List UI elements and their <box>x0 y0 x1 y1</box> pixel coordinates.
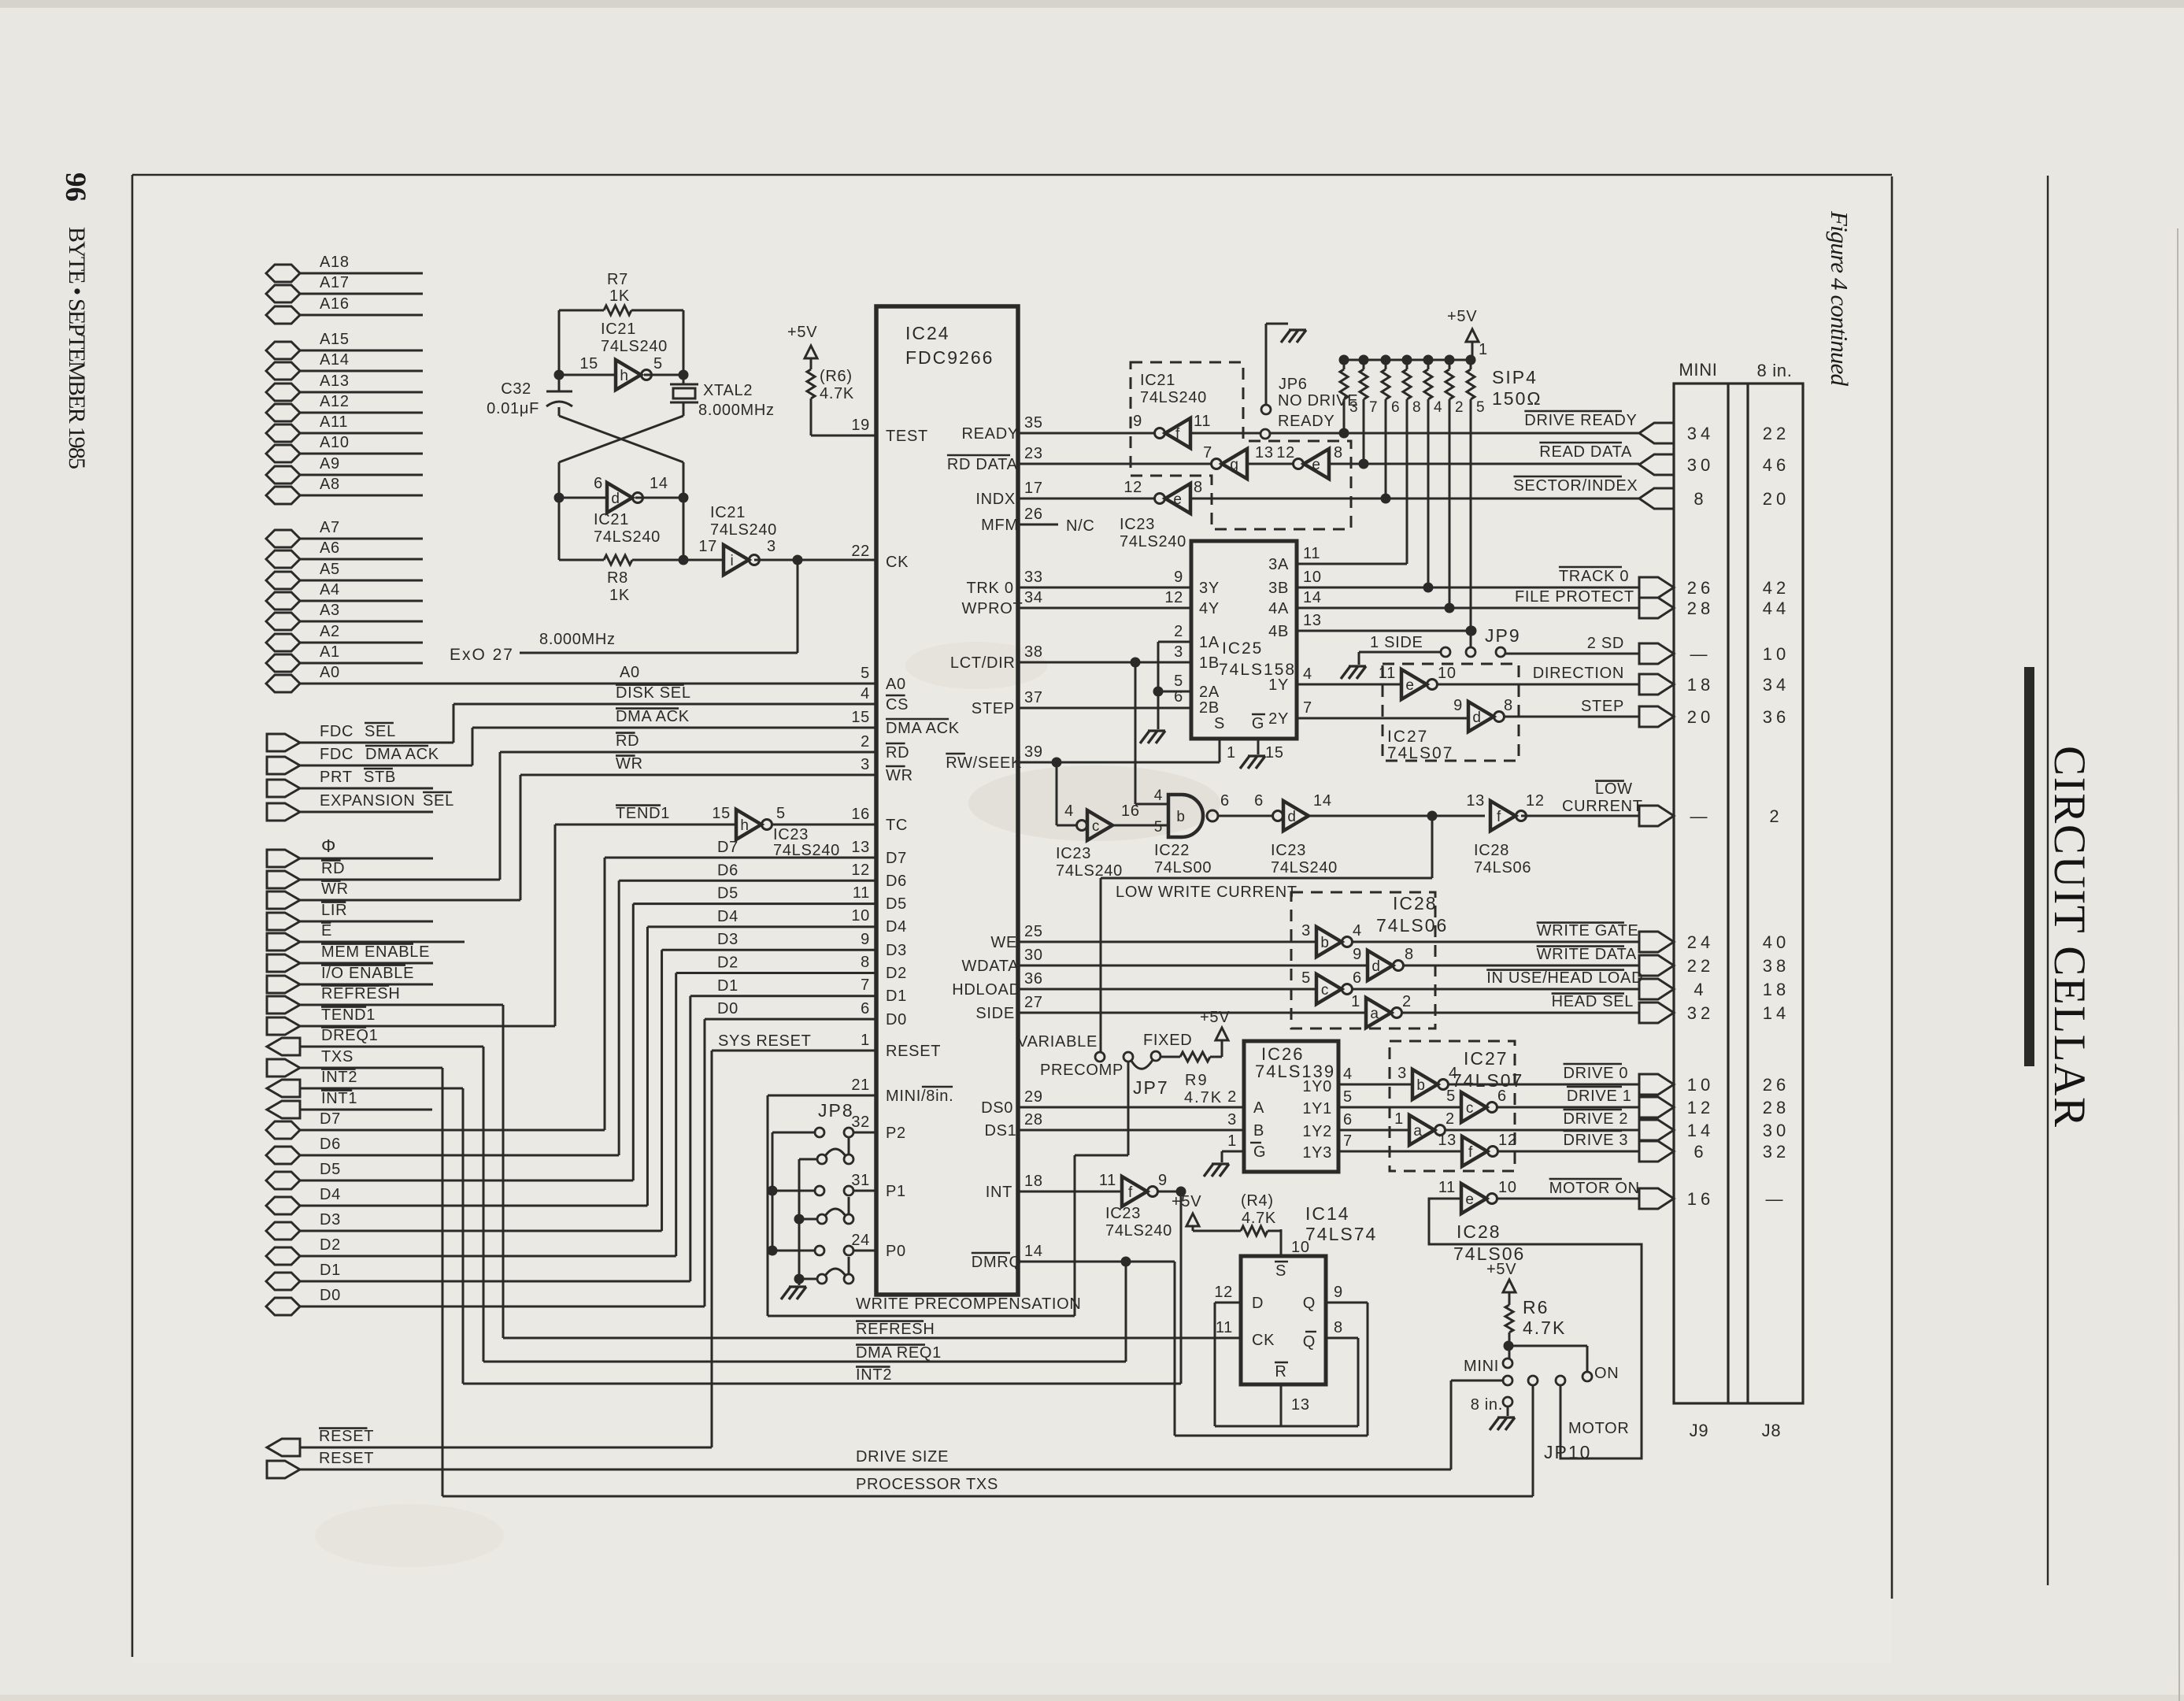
svg-text:A1: A1 <box>320 643 340 661</box>
svg-text:1: 1 <box>1227 744 1236 762</box>
svg-text:LOW: LOW <box>1595 780 1633 798</box>
svg-text:12: 12 <box>1687 1098 1714 1117</box>
svg-text:3A: 3A <box>1268 556 1289 573</box>
svg-text:8: 8 <box>1412 399 1421 416</box>
svg-text:WE: WE <box>990 934 1017 951</box>
svg-text:32: 32 <box>1763 1142 1790 1162</box>
svg-text:A17: A17 <box>320 274 350 291</box>
svg-text:6: 6 <box>1497 1088 1507 1105</box>
svg-text:13: 13 <box>1466 792 1485 810</box>
svg-text:10: 10 <box>1438 665 1457 682</box>
svg-text:4: 4 <box>861 685 870 702</box>
svg-text:+5V: +5V <box>787 324 817 341</box>
svg-text:1: 1 <box>1394 1110 1404 1128</box>
svg-text:6: 6 <box>1220 792 1230 810</box>
svg-text:40: 40 <box>1763 932 1790 952</box>
svg-text:STEP: STEP <box>1581 698 1624 715</box>
svg-text:f: f <box>1175 426 1180 443</box>
svg-text:9: 9 <box>861 931 870 948</box>
svg-text:4: 4 <box>1064 802 1074 820</box>
svg-text:14: 14 <box>1313 792 1332 810</box>
svg-text:4: 4 <box>1154 787 1163 804</box>
svg-text:e: e <box>1312 457 1320 473</box>
svg-text:MOTOR ON: MOTOR ON <box>1549 1180 1640 1197</box>
svg-text:33: 33 <box>1024 569 1043 586</box>
svg-text:IC22: IC22 <box>1154 842 1190 859</box>
svg-text:D1: D1 <box>320 1262 341 1279</box>
svg-text:—: — <box>1690 644 1712 664</box>
svg-text:22: 22 <box>1687 956 1714 976</box>
svg-text:DS1: DS1 <box>985 1122 1017 1140</box>
svg-text:SIP4: SIP4 <box>1492 367 1538 387</box>
svg-text:DMA REQ1: DMA REQ1 <box>856 1344 942 1362</box>
svg-text:b: b <box>1320 935 1329 951</box>
svg-text:MINI: MINI <box>1464 1358 1499 1375</box>
svg-text:A12: A12 <box>320 393 350 410</box>
svg-text:HDLOAD: HDLOAD <box>952 981 1021 999</box>
svg-text:D0: D0 <box>320 1287 341 1304</box>
svg-text:6: 6 <box>861 1000 870 1017</box>
svg-text:RESET: RESET <box>319 1428 374 1445</box>
svg-text:PRT: PRT <box>320 769 353 786</box>
svg-text:D6: D6 <box>717 862 738 879</box>
svg-text:f: f <box>1128 1184 1133 1201</box>
svg-text:3: 3 <box>1227 1111 1237 1128</box>
svg-text:CK: CK <box>1252 1332 1275 1349</box>
svg-text:74LS07: 74LS07 <box>1452 1070 1523 1091</box>
svg-text:IC21: IC21 <box>1140 372 1175 389</box>
svg-text:P2: P2 <box>886 1125 906 1142</box>
svg-text:74LS07: 74LS07 <box>1387 744 1453 762</box>
svg-text:4: 4 <box>1434 399 1442 416</box>
svg-text:SECTOR/INDEX: SECTOR/INDEX <box>1513 477 1638 495</box>
svg-text:5: 5 <box>1343 1088 1353 1106</box>
svg-text:14: 14 <box>1687 1121 1714 1140</box>
svg-text:17: 17 <box>698 538 717 555</box>
svg-text:S: S <box>1214 715 1225 732</box>
svg-text:7: 7 <box>1203 444 1212 461</box>
svg-text:C32: C32 <box>501 380 531 398</box>
svg-text:INT2: INT2 <box>321 1069 357 1086</box>
svg-text:A8: A8 <box>320 476 340 493</box>
svg-text:14: 14 <box>1024 1243 1043 1260</box>
svg-text:VARIABLE: VARIABLE <box>1017 1033 1098 1051</box>
svg-text:B: B <box>1253 1122 1264 1140</box>
svg-text:DMRQ: DMRQ <box>972 1254 1022 1271</box>
svg-text:A2: A2 <box>320 623 340 640</box>
svg-text:2 SD: 2 SD <box>1587 635 1624 652</box>
svg-text:JP6: JP6 <box>1279 376 1308 393</box>
svg-text:23: 23 <box>1024 445 1043 462</box>
svg-text:IC14: IC14 <box>1305 1203 1350 1224</box>
svg-text:96: 96 <box>59 172 91 202</box>
svg-text:74LS240: 74LS240 <box>594 528 661 546</box>
svg-text:22: 22 <box>1763 424 1790 443</box>
svg-text:1: 1 <box>1227 1132 1237 1150</box>
svg-text:RW/SEEK: RW/SEEK <box>946 754 1022 772</box>
svg-text:D4: D4 <box>886 918 907 936</box>
svg-text:SIDE: SIDE <box>975 1005 1014 1022</box>
svg-text:+5V: +5V <box>1172 1193 1201 1210</box>
svg-text:28: 28 <box>1024 1111 1043 1128</box>
svg-text:4A: 4A <box>1268 600 1289 617</box>
svg-text:46: 46 <box>1763 455 1790 475</box>
svg-text:R9: R9 <box>1185 1072 1209 1089</box>
svg-text:18: 18 <box>1024 1173 1043 1190</box>
svg-text:42: 42 <box>1763 578 1790 598</box>
svg-text:1Y1: 1Y1 <box>1302 1100 1332 1117</box>
svg-text:FDC9266: FDC9266 <box>905 347 994 368</box>
svg-text:44: 44 <box>1763 598 1790 618</box>
svg-text:13: 13 <box>1438 1132 1457 1149</box>
svg-text:12: 12 <box>1498 1132 1517 1149</box>
svg-text:3: 3 <box>861 756 870 773</box>
svg-text:11: 11 <box>1379 665 1396 682</box>
svg-text:25: 25 <box>1024 923 1043 940</box>
svg-text:c: c <box>1092 818 1100 835</box>
svg-text:34: 34 <box>1763 675 1790 695</box>
svg-text:D7: D7 <box>717 839 738 856</box>
svg-text:1Y2: 1Y2 <box>1302 1123 1332 1140</box>
svg-text:2: 2 <box>861 733 870 750</box>
svg-text:A0: A0 <box>320 664 340 681</box>
svg-text:P1: P1 <box>886 1183 906 1200</box>
svg-text:1: 1 <box>1351 993 1360 1010</box>
svg-text:1Y3: 1Y3 <box>1302 1144 1332 1162</box>
svg-text:32: 32 <box>851 1114 870 1131</box>
svg-text:6: 6 <box>1343 1111 1353 1128</box>
svg-text:1B: 1B <box>1199 654 1220 672</box>
svg-text:J8: J8 <box>1762 1421 1782 1440</box>
svg-text:G: G <box>1253 1143 1266 1161</box>
svg-text:SYS RESET: SYS RESET <box>718 1032 812 1050</box>
svg-text:29: 29 <box>1024 1088 1043 1106</box>
svg-text:b: b <box>1176 809 1185 825</box>
svg-text:f: f <box>1468 1144 1473 1161</box>
svg-text:74LS240: 74LS240 <box>1120 533 1186 550</box>
svg-text:34: 34 <box>1024 589 1043 606</box>
svg-text:4Y: 4Y <box>1199 600 1220 617</box>
svg-text:18: 18 <box>1763 980 1790 999</box>
svg-text:5: 5 <box>653 355 663 372</box>
svg-text:E: E <box>321 922 332 939</box>
svg-text:36: 36 <box>1024 970 1043 988</box>
svg-text:MINI/8in.: MINI/8in. <box>886 1088 953 1105</box>
svg-text:4.7K: 4.7K <box>1242 1210 1276 1227</box>
svg-text:2: 2 <box>1455 399 1464 416</box>
svg-text:RESET: RESET <box>886 1043 941 1060</box>
svg-text:R7: R7 <box>607 271 628 288</box>
svg-text:A15: A15 <box>320 331 350 348</box>
svg-text:ExO 27: ExO 27 <box>450 646 514 664</box>
svg-text:4: 4 <box>1343 1065 1353 1083</box>
svg-text:D7: D7 <box>320 1110 341 1128</box>
svg-text:10: 10 <box>1687 1075 1714 1095</box>
svg-text:15: 15 <box>579 355 598 372</box>
svg-text:IC27: IC27 <box>1464 1048 1508 1069</box>
svg-text:WRITE GATE: WRITE GATE <box>1537 922 1639 939</box>
svg-text:16: 16 <box>1687 1189 1714 1209</box>
svg-text:A18: A18 <box>320 254 350 271</box>
svg-text:A: A <box>1253 1099 1264 1117</box>
svg-text:FDC: FDC <box>320 723 354 740</box>
svg-text:11: 11 <box>853 884 870 902</box>
svg-text:TEND1: TEND1 <box>321 1006 376 1024</box>
svg-text:14: 14 <box>1303 589 1322 606</box>
svg-text:1: 1 <box>1479 341 1488 358</box>
svg-text:IC21: IC21 <box>601 321 636 338</box>
svg-text:74LS240: 74LS240 <box>710 521 777 539</box>
svg-text:DMA ACK: DMA ACK <box>886 720 960 737</box>
svg-text:BYTE • SEPTEMBER 1985: BYTE • SEPTEMBER 1985 <box>64 227 90 472</box>
svg-text:—: — <box>1766 1189 1787 1209</box>
svg-text:15: 15 <box>1265 744 1284 762</box>
svg-text:WR: WR <box>616 755 643 773</box>
svg-text:IC23: IC23 <box>1120 516 1155 533</box>
svg-text:1K: 1K <box>609 587 630 604</box>
svg-text:P0: P0 <box>886 1243 906 1260</box>
svg-text:FIXED: FIXED <box>1143 1032 1192 1049</box>
svg-text:MFM: MFM <box>981 517 1019 534</box>
svg-text:3Y: 3Y <box>1199 580 1220 597</box>
svg-text:26: 26 <box>1687 578 1714 598</box>
svg-text:74LS74: 74LS74 <box>1305 1224 1377 1244</box>
svg-text:5: 5 <box>1301 969 1311 987</box>
svg-text:R6: R6 <box>1523 1297 1549 1317</box>
svg-text:TC: TC <box>886 817 908 834</box>
svg-text:TEST: TEST <box>886 428 928 445</box>
svg-text:5: 5 <box>776 805 786 822</box>
svg-text:A6: A6 <box>320 539 340 557</box>
svg-text:c: c <box>1466 1100 1474 1117</box>
svg-text:D4: D4 <box>320 1186 341 1203</box>
svg-text:30: 30 <box>1763 1121 1790 1140</box>
svg-text:A9: A9 <box>320 455 340 472</box>
svg-text:12: 12 <box>1164 589 1183 606</box>
svg-text:0.01μF: 0.01μF <box>487 400 539 417</box>
svg-text:CIRCUIT CELLAR: CIRCUIT CELLAR <box>2045 746 2094 1128</box>
svg-text:RD: RD <box>321 860 345 877</box>
svg-text:TRACK 0: TRACK 0 <box>1559 568 1629 585</box>
svg-text:STEP: STEP <box>972 700 1015 717</box>
svg-text:2: 2 <box>1227 1088 1237 1106</box>
svg-text:9: 9 <box>1174 569 1183 586</box>
svg-text:74LS240: 74LS240 <box>601 338 668 355</box>
svg-text:ON: ON <box>1594 1365 1619 1382</box>
svg-text:2: 2 <box>1769 806 1782 826</box>
svg-text:R8: R8 <box>607 569 628 587</box>
svg-text:IC25: IC25 <box>1222 639 1263 658</box>
svg-text:10: 10 <box>1291 1239 1310 1256</box>
svg-text:a: a <box>1370 1006 1379 1022</box>
svg-text:D3: D3 <box>886 942 907 959</box>
svg-text:IC28: IC28 <box>1457 1221 1501 1242</box>
svg-text:(R6): (R6) <box>820 368 853 385</box>
svg-text:35: 35 <box>1024 414 1043 432</box>
svg-text:CURRENT: CURRENT <box>1562 798 1643 815</box>
svg-text:20: 20 <box>1687 707 1714 727</box>
svg-text:RD DATA: RD DATA <box>947 456 1018 473</box>
svg-text:26: 26 <box>1763 1075 1790 1095</box>
svg-text:JP9: JP9 <box>1485 625 1521 646</box>
svg-text:A0: A0 <box>886 676 906 693</box>
svg-text:DRIVE 1: DRIVE 1 <box>1567 1088 1632 1105</box>
svg-text:6: 6 <box>594 475 603 492</box>
svg-text:D4: D4 <box>717 908 738 925</box>
svg-text:DRIVE READY: DRIVE READY <box>1524 412 1637 429</box>
svg-text:+5V: +5V <box>1447 308 1477 325</box>
svg-text:D5: D5 <box>320 1161 341 1178</box>
svg-text:h: h <box>620 368 628 384</box>
svg-text:74LS240: 74LS240 <box>1271 859 1338 876</box>
svg-text:19: 19 <box>851 417 870 434</box>
svg-text:D7: D7 <box>886 850 907 867</box>
svg-text:D5: D5 <box>717 885 738 902</box>
svg-text:30: 30 <box>1687 455 1714 475</box>
svg-text:SEL: SEL <box>365 723 396 740</box>
svg-text:2: 2 <box>1446 1110 1455 1128</box>
svg-text:g: g <box>1230 457 1238 473</box>
svg-text:3: 3 <box>767 538 776 555</box>
svg-text:DIRECTION: DIRECTION <box>1533 665 1624 682</box>
svg-text:(R4): (R4) <box>1241 1192 1274 1210</box>
svg-text:HEAD SEL: HEAD SEL <box>1552 993 1634 1010</box>
svg-text:JP7: JP7 <box>1133 1077 1169 1098</box>
svg-text:5: 5 <box>1446 1088 1456 1105</box>
svg-text:9: 9 <box>1334 1284 1343 1301</box>
svg-text:36: 36 <box>1763 707 1790 727</box>
svg-text:10: 10 <box>851 907 870 925</box>
svg-text:S: S <box>1275 1262 1286 1280</box>
svg-text:REFRESH: REFRESH <box>856 1321 935 1338</box>
svg-text:16: 16 <box>851 806 870 823</box>
svg-text:STB: STB <box>364 769 396 786</box>
svg-text:e: e <box>1173 491 1182 508</box>
svg-text:7: 7 <box>861 976 870 994</box>
svg-text:12: 12 <box>1276 444 1295 461</box>
svg-text:38: 38 <box>1763 956 1790 976</box>
svg-text:15: 15 <box>851 709 870 726</box>
svg-text:22: 22 <box>851 543 870 560</box>
svg-text:CS: CS <box>886 696 909 713</box>
svg-text:37: 37 <box>1024 689 1043 706</box>
svg-text:D2: D2 <box>717 954 738 972</box>
svg-text:IC27: IC27 <box>1387 728 1428 746</box>
svg-text:8: 8 <box>1405 946 1414 963</box>
svg-text:A13: A13 <box>320 372 350 390</box>
svg-text:5: 5 <box>861 665 870 682</box>
svg-text:10: 10 <box>1763 644 1790 664</box>
svg-text:FILE PROTECT: FILE PROTECT <box>1515 588 1634 606</box>
svg-text:15: 15 <box>712 805 731 822</box>
svg-text:74LS240: 74LS240 <box>1140 389 1207 406</box>
svg-text:IC24: IC24 <box>905 323 950 343</box>
svg-text:A10: A10 <box>320 434 350 451</box>
svg-text:26: 26 <box>1024 506 1043 523</box>
svg-text:Q: Q <box>1303 1295 1316 1312</box>
svg-text:4.7K: 4.7K <box>1523 1317 1566 1338</box>
svg-text:WPROT: WPROT <box>962 600 1024 617</box>
svg-text:D0: D0 <box>717 1000 738 1017</box>
svg-text:D: D <box>1252 1295 1264 1312</box>
svg-text:13: 13 <box>851 839 870 856</box>
svg-text:D1: D1 <box>886 988 907 1005</box>
svg-text:24: 24 <box>1687 932 1714 952</box>
svg-text:IC23: IC23 <box>1105 1205 1141 1222</box>
svg-text:A16: A16 <box>320 295 350 313</box>
svg-text:9: 9 <box>1453 697 1463 714</box>
svg-text:5: 5 <box>1154 819 1163 836</box>
svg-text:5: 5 <box>1174 673 1183 690</box>
svg-text:INT: INT <box>986 1184 1012 1201</box>
svg-text:11: 11 <box>1099 1172 1116 1189</box>
svg-text:h: h <box>740 817 749 834</box>
svg-text:2Y: 2Y <box>1268 710 1289 728</box>
svg-text:TRK 0: TRK 0 <box>967 580 1014 597</box>
svg-text:6: 6 <box>1694 1142 1707 1162</box>
svg-text:IC28: IC28 <box>1474 842 1509 859</box>
svg-text:RESET: RESET <box>319 1450 374 1467</box>
svg-text:14: 14 <box>1763 1003 1790 1023</box>
svg-text:4: 4 <box>1303 665 1312 683</box>
svg-text:G: G <box>1252 715 1264 732</box>
svg-text:11: 11 <box>1438 1179 1456 1196</box>
svg-text:DRIVE SIZE: DRIVE SIZE <box>856 1448 949 1466</box>
svg-text:+5V: +5V <box>1486 1261 1516 1278</box>
svg-text:PRECOMP: PRECOMP <box>1040 1062 1123 1079</box>
svg-text:JP8: JP8 <box>818 1100 854 1121</box>
svg-text:A14: A14 <box>320 351 350 369</box>
svg-text:3: 3 <box>1174 643 1183 661</box>
svg-text:DRIVE 2: DRIVE 2 <box>1564 1110 1629 1128</box>
svg-text:4: 4 <box>1353 922 1362 939</box>
svg-text:e: e <box>1405 677 1414 694</box>
svg-text:1 SIDE: 1 SIDE <box>1370 634 1423 651</box>
svg-text:EXPANSION: EXPANSION <box>320 792 416 810</box>
svg-text:—: — <box>1690 806 1712 826</box>
svg-text:INDX: INDX <box>975 491 1016 508</box>
svg-text:32: 32 <box>1687 1003 1714 1023</box>
svg-text:11: 11 <box>1216 1319 1233 1336</box>
svg-text:A3: A3 <box>320 602 340 619</box>
svg-text:N/C: N/C <box>1066 517 1095 535</box>
svg-text:2A: 2A <box>1199 684 1220 701</box>
svg-text:INT2: INT2 <box>856 1366 892 1384</box>
svg-text:WDATA: WDATA <box>962 958 1020 975</box>
svg-text:READY: READY <box>1278 413 1334 430</box>
svg-text:A11: A11 <box>320 413 348 431</box>
svg-text:D3: D3 <box>717 931 738 948</box>
svg-text:READY: READY <box>962 425 1019 443</box>
svg-text:13: 13 <box>1255 444 1274 461</box>
svg-text:3: 3 <box>1397 1065 1407 1082</box>
svg-text:1K: 1K <box>609 287 630 305</box>
svg-text:12: 12 <box>1214 1284 1233 1301</box>
svg-text:IC23: IC23 <box>1271 842 1306 859</box>
svg-text:DRIVE 0: DRIVE 0 <box>1564 1065 1629 1082</box>
svg-text:b: b <box>1416 1077 1425 1094</box>
svg-text:D6: D6 <box>886 873 907 890</box>
svg-text:1: 1 <box>861 1032 870 1049</box>
svg-text:MINI: MINI <box>1679 360 1717 380</box>
svg-text:7: 7 <box>1343 1132 1353 1150</box>
svg-text:I/O ENABLE: I/O ENABLE <box>321 965 414 982</box>
svg-text:9: 9 <box>1133 413 1142 430</box>
svg-text:Φ: Φ <box>321 836 336 856</box>
svg-text:WRITE DATA: WRITE DATA <box>1537 946 1637 963</box>
svg-text:f: f <box>1497 809 1501 825</box>
svg-text:+5V: +5V <box>1200 1009 1230 1026</box>
